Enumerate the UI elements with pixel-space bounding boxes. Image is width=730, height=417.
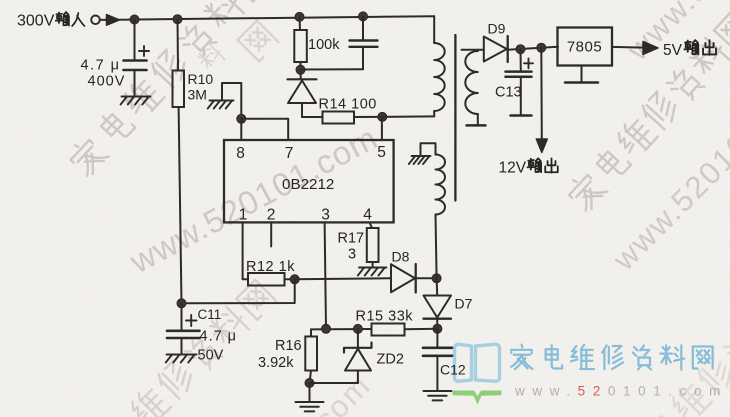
transformer core xyxy=(454,35,456,201)
diode D7 xyxy=(424,278,452,328)
wire pin1 to R12 xyxy=(242,222,244,279)
arrow 12V xyxy=(536,139,547,153)
junction D7-R15-C12 xyxy=(433,324,442,333)
resistor R12 1k xyxy=(243,273,295,286)
wire 12V output xyxy=(540,48,543,139)
junction R14-pin5 xyxy=(378,112,387,121)
wire pin8 stub xyxy=(240,119,242,140)
wire R14 to primary bottom xyxy=(382,115,434,118)
ground C11 xyxy=(167,354,197,356)
label 12V output xyxy=(499,158,558,176)
junction rail-100k xyxy=(295,12,304,21)
watermark 家电维修资料网 top-left xyxy=(65,0,271,178)
transformer auxiliary winding xyxy=(421,143,446,278)
transformer secondary winding xyxy=(465,50,478,125)
resistor R14 100 xyxy=(302,112,382,124)
junction C11 node xyxy=(177,299,186,308)
junction R12 right xyxy=(290,275,299,284)
transformer T1 primary winding xyxy=(434,43,445,116)
ground R17 xyxy=(359,267,387,269)
watermark 家电维修资料网 right xyxy=(564,11,730,213)
junction C13 top xyxy=(516,45,525,54)
wire rail to primary top xyxy=(433,16,435,43)
ground 7805 xyxy=(565,66,598,83)
junction pin3-R15 row xyxy=(322,324,331,333)
wire R12 to C11 node xyxy=(182,279,295,303)
wire R12 node to D8 xyxy=(295,278,391,279)
resistor R10 3M xyxy=(173,19,185,303)
junction rail-C1 xyxy=(130,15,139,24)
resistor 100k xyxy=(294,17,307,70)
watermark 维修资料网 behind logo xyxy=(615,275,730,417)
diode D9 xyxy=(484,36,508,62)
junction 100k-zener xyxy=(296,65,305,74)
ground R16 xyxy=(296,383,324,411)
label 5V output xyxy=(663,40,716,59)
capacitor C11 4.7u 50V xyxy=(167,303,200,354)
resistor R15 33k xyxy=(372,324,438,336)
wire 7805 output xyxy=(612,46,643,49)
arrow 5V xyxy=(643,41,658,54)
wire node to pin7 xyxy=(241,119,288,140)
diode D8 xyxy=(391,264,437,293)
capacitor C13 xyxy=(506,49,534,114)
junction 12V node xyxy=(537,43,546,52)
op-amp U1 OB2212 IC box xyxy=(224,140,394,222)
watermark 维修资料网 bottom-left xyxy=(73,280,276,417)
junction rail-R10 xyxy=(173,15,182,24)
wire secondary to D9 xyxy=(462,49,484,51)
label 300V input xyxy=(17,12,85,29)
junction rail-cap xyxy=(359,12,368,21)
resistor R17 3 xyxy=(367,228,379,268)
wire feedback row xyxy=(311,328,372,330)
ground aux winding xyxy=(412,155,431,157)
wire pin4 to R17 xyxy=(370,222,373,228)
logo book icon xyxy=(453,344,502,404)
junction pin8 node xyxy=(237,114,246,123)
watermark 料网 upper-middle xyxy=(196,21,278,73)
ground C12 xyxy=(423,390,451,392)
wire pin2 stub xyxy=(270,222,272,246)
ground secondary bottom bar xyxy=(467,124,486,127)
resistor R16 3.92k xyxy=(305,329,317,383)
wire pin3 down xyxy=(325,222,326,328)
wire D9 to 7805 xyxy=(508,47,558,50)
regulator U2 7805 xyxy=(558,28,613,66)
junction D8-aux xyxy=(432,274,441,283)
logo text 家电维修资料网 xyxy=(511,345,713,370)
wire pin5 stub xyxy=(381,117,383,140)
input terminal xyxy=(91,15,100,24)
ground near pin8 xyxy=(208,83,242,119)
ground C13 bar xyxy=(511,114,532,117)
diode clamp zener xyxy=(288,70,317,117)
capacitor snubber top xyxy=(301,16,378,69)
logo text www.520101.com xyxy=(514,384,728,399)
ground input cap xyxy=(122,96,151,98)
input arrow xyxy=(107,15,120,26)
capacitor C12 xyxy=(423,329,452,391)
zener ZD2 xyxy=(310,329,372,383)
capacitor 4.7u 400V input xyxy=(124,20,150,97)
junction R16 bottom xyxy=(305,379,314,388)
junction ZD2 top xyxy=(353,324,362,333)
wire top rail xyxy=(100,16,434,20)
